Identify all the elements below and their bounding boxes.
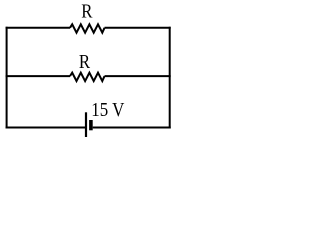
wire: bottom wire left segment	[6, 127, 85, 129]
resistor R1 (top branch)	[70, 24, 105, 32]
wire: bottom wire right segment	[93, 127, 171, 129]
wire: middle wire left segment	[6, 75, 70, 77]
wire: top wire right segment	[105, 27, 171, 29]
svg-text:15 V: 15 V	[91, 99, 125, 121]
wire: left vertical wire	[6, 27, 8, 129]
resistor R2 (middle branch)	[70, 73, 105, 81]
wire: right vertical wire	[169, 27, 171, 129]
battery B1: short thick plate (right)	[89, 120, 93, 130]
wire: middle wire right segment	[105, 75, 171, 77]
svg-text:R: R	[81, 1, 93, 23]
wire: top wire left segment	[6, 27, 70, 29]
svg-text:R: R	[79, 51, 91, 73]
battery B1: long plate (left)	[85, 112, 87, 137]
